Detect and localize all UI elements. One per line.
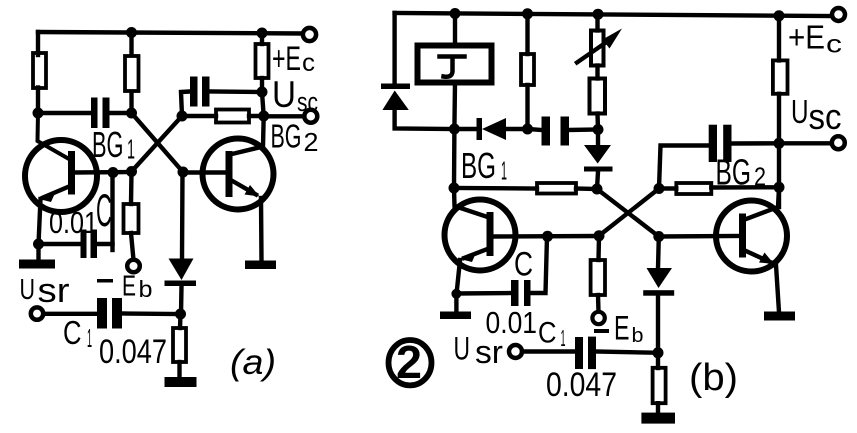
wire node to R7 (b) [656,353,660,368]
ground BG1 emitter (b) [454,294,458,312]
capacitor C 0.01 (b) [511,280,531,306]
wire diode to bottom corner (b) [395,112,455,129]
transistor BG2 (b) [716,201,787,272]
node base-R4 junction (a) [126,166,137,177]
svg-text:E: E [614,310,630,348]
wire D3 to node E (b) [597,172,598,190]
svg-text:U: U [272,74,296,115]
node R1 bottom (b) [522,124,533,135]
svg-text:C: C [63,314,82,351]
svg-text:1: 1 [561,325,566,351]
wire C3 to node F (b) [659,146,709,189]
wire rail to R3 (a) [260,33,264,44]
wire node E to R3 (b) [576,186,597,191]
svg-text:b: b [632,325,644,347]
resistor R4 (a) [124,204,139,233]
resistor R7 (b) [653,368,666,403]
wire R1 to node (b) [525,85,529,129]
node base line junction (a) [108,167,119,178]
relay J (b) [418,46,492,83]
wire node B to R5 (a) [182,114,216,118]
wire C to base junction (a) [97,173,113,245]
wire Usc output (b) [779,141,832,145]
wire VR to R2 (b) [595,66,599,79]
svg-text:U: U [20,274,36,306]
svg-text:2: 2 [304,127,319,157]
capacitor C1 0.047 (b) [575,337,596,370]
terminal -Eb (a) [127,260,140,273]
node base-C junction (b) [542,231,553,242]
wire rail to R1 (b) [525,14,529,54]
wire cross-coupling F to G (b) [599,189,659,236]
node BG1 collector (b) [449,183,460,194]
wire R6 to ground (a) [177,362,181,378]
wire top supply rail (b) [395,13,832,16]
wire BG1 collector lead (b) [454,188,488,217]
terminal Usr (a) [31,307,43,319]
svg-text:0.047: 0.047 [99,333,167,371]
node G base-R4 junction (b) [594,230,605,241]
resistor R6 (a) [173,328,186,362]
ground BG1 emitter (a) [36,244,40,260]
wire D2 to R1 node (b) [506,127,528,131]
svg-text:E: E [122,271,136,303]
svg-text:+E: +E [272,40,301,78]
wire top supply rail (a) [38,32,303,34]
wire emitter to C 0.01 (b) [456,291,511,296]
node BG1 emitter (b) [451,289,461,299]
node rail-R6 junction (b) [774,10,785,21]
wire cross-coupling node B to BG1 base (a) [132,116,183,172]
node A (a) [126,108,137,119]
wire R5 to collector node (a) [249,114,264,118]
svg-text:c: c [826,31,842,59]
terminal Usc (a) [304,110,317,123]
svg-text:U: U [791,93,809,130]
wire relay node down to BG1 collector node (b) [452,129,457,188]
wire Usc output (a) [264,114,303,118]
svg-text:BG: BG [716,152,752,193]
resistor R2 (a) [125,56,139,91]
svg-text:BG: BG [271,118,302,155]
wire G to R4 (b) [596,236,601,260]
node BG2 collector (b) [774,182,785,193]
svg-text:b: b [139,276,153,302]
wire emitter node to C 0.01 (a) [39,242,82,246]
wire rail to R6 (b) [777,16,781,61]
wire R7 to ground (b) [656,403,660,413]
wire R6 to Usc node (b) [777,94,781,144]
ground BG2 emitter (b) [764,312,795,321]
label -Eb minus (b) [594,329,609,333]
wire BG1 emitter lead with arrow (b) [464,249,488,258]
svg-text:+E: +E [788,19,825,56]
node B (a) [177,111,188,122]
wire Usr to C4 (b) [522,349,575,353]
svg-text:U: U [454,331,471,367]
terminal -Eb (b) [592,312,604,324]
svg-text:2: 2 [396,336,422,388]
wire cross-coupling node A to BG2 base (a) [132,113,184,172]
wire R5 to collector node (b) [711,185,779,190]
wire R4 to -Eb terminal (b) [596,295,601,312]
svg-text:BG: BG [92,124,124,165]
wire node to C2 (b) [528,129,543,130]
wire Usr to C1 (a) [44,312,98,316]
wire relay to node (b) [452,83,457,130]
node Usc junction (b) [774,138,785,149]
wire collector node down (b) [777,143,781,207]
wire C to base node (b) [531,237,548,294]
wire BG1 emitter lead with arrow (a) [43,187,69,198]
diode D1 (a) [169,259,194,281]
capacitor C2 coupling (a) [91,98,110,129]
svg-text:(a): (a) [230,343,276,382]
wire R2 to node (b) [595,114,600,130]
wire rail to R2 (a) [129,33,133,56]
svg-text:1: 1 [501,156,507,186]
wire C4 to node (b) [595,352,658,353]
resistor R3 horizontal (b) [537,183,576,194]
terminal Usc (b) [832,136,845,149]
svg-text:BG: BG [461,145,496,186]
diode D4 (b) [647,268,673,288]
node rail-R2 junction (a) [126,27,137,38]
wire base node to R4 (a) [129,172,134,205]
capacitor C1 0.047 (a) [97,298,122,329]
wire BG1 base line (a) [75,170,133,175]
svg-text:C: C [96,185,112,236]
transistor BG1 (a) [25,140,97,212]
node VR chain bottom (b) [593,124,604,135]
resistor R5 horizontal (b) [676,183,711,194]
wire R1 to collector node (a) [36,88,40,114]
wire rail to R1 (a) [36,32,40,55]
capacitor C2 (b) [542,117,570,146]
node BG2 collector (a) [258,111,269,122]
wire diode to input node (a) [179,286,184,314]
wire C2 to VR node (b) [569,127,598,132]
wire BG2 emitter lead with arrow (b) [746,251,770,262]
resistor R5 horizontal (a) [216,110,249,123]
diode D3 (b) [584,145,611,164]
wire node to capacitor C2 (a) [38,111,92,115]
resistor R1 (b) [521,54,534,85]
resistor R3 (a) [256,44,269,78]
node input junction (b) [653,347,664,358]
svg-text:(b): (b) [689,357,738,399]
diode D1 protection (b) [381,84,410,90]
wire D4 to input node (b) [656,297,660,353]
wire BG2 collector lead (a) [232,116,264,154]
wire rail to VR (b) [595,14,599,30]
svg-text:c: c [302,49,315,77]
resistor R4 (b) [591,260,605,295]
node BG1 emitter (a) [33,239,44,250]
figure number circled 2 [389,340,432,385]
svg-text:1: 1 [127,134,135,165]
wire R3 to BG1 collector node (b) [454,186,537,191]
svg-text:1: 1 [87,323,92,353]
wire node to R6 (a) [178,314,183,328]
wire R3 to node (a) [260,78,264,92]
diode D2 horizontal (b) [477,118,483,140]
wire BG2 emitter lead with arrow (a) [233,181,257,195]
ground BG2 emitter (a) [245,261,276,270]
wire rail to relay (b) [453,14,457,47]
wire rail down left branch (b) [392,13,396,84]
terminal +Ec (a) [303,28,316,41]
wire H to diode D4 (b) [656,237,661,269]
variable resistor VR (b) [591,31,604,66]
wire BG2 collector lead (b) [746,187,779,219]
node BG2 base (a) [178,167,189,178]
wire BG2 base node to diode (a) [180,172,185,259]
ground input divider (a) [165,377,197,387]
node H base BG2 (b) [653,231,664,242]
wire R4 to -Eb terminal (a) [131,233,134,260]
node E collector BG1 (b) [592,184,603,195]
wire BG2 base line (b) [659,234,739,239]
transistor BG1 (b) [445,200,516,271]
wire C3 to collector node (b) [732,141,780,146]
wire node to D3 (b) [596,130,600,147]
svg-text:C: C [514,246,533,284]
svg-text:sr: sr [475,334,503,370]
node rail-relay junction (b) [450,8,461,19]
wire C1 to node (a) [122,311,181,316]
terminal +Ec (b) [832,8,845,21]
terminal Usr (b) [509,345,522,358]
wire node to diode D2 (b) [454,127,477,131]
ground input divider (b) [641,413,675,424]
wire cross-coupling E to H (b) [597,189,659,237]
wire R2 to node A (a) [129,92,133,113]
wire C3 to collector node BG2 (a) [210,89,263,94]
capacitor C3 speedup (a) [190,77,210,107]
node rail-R1 junction (b) [522,8,533,19]
resistor R2 (b) [590,79,606,114]
capacitor C3 coupling (b) [709,125,732,162]
wire vertical between nodes (a) [262,92,264,116]
wire F to R5 (b) [659,186,676,190]
svg-text:sc: sc [809,96,842,137]
wire node B up to C3 (a) [181,92,190,117]
node R3 bottom (a) [257,87,268,98]
node BG1 collector (a) [33,108,44,119]
label -Eb minus (a) [97,279,113,283]
svg-text:sc: sc [297,87,318,117]
node rail-R3 junction (a) [257,28,268,39]
node rail-VR junction (b) [593,9,604,20]
wire C2 to node A (a) [110,111,132,115]
node relay-diode junction (b) [449,124,460,135]
capacitor C 0.01 (a) [81,230,98,259]
svg-text:0.047: 0.047 [546,366,617,404]
svg-text:0.01: 0.01 [49,205,98,240]
resistor R1 (a) [33,53,46,88]
transistor BG2 (a) [203,139,274,210]
resistor R6 (b) [773,60,788,93]
svg-text:2: 2 [754,162,766,192]
node F (b) [654,183,665,194]
wire BG1 base line (b) [494,234,600,239]
node input junction (a) [175,309,186,320]
svg-text:C: C [538,317,557,350]
wire BG2 base line (a) [183,170,226,174]
svg-text:sr: sr [38,272,70,310]
wire BG1 collector lead (a) [38,113,70,159]
